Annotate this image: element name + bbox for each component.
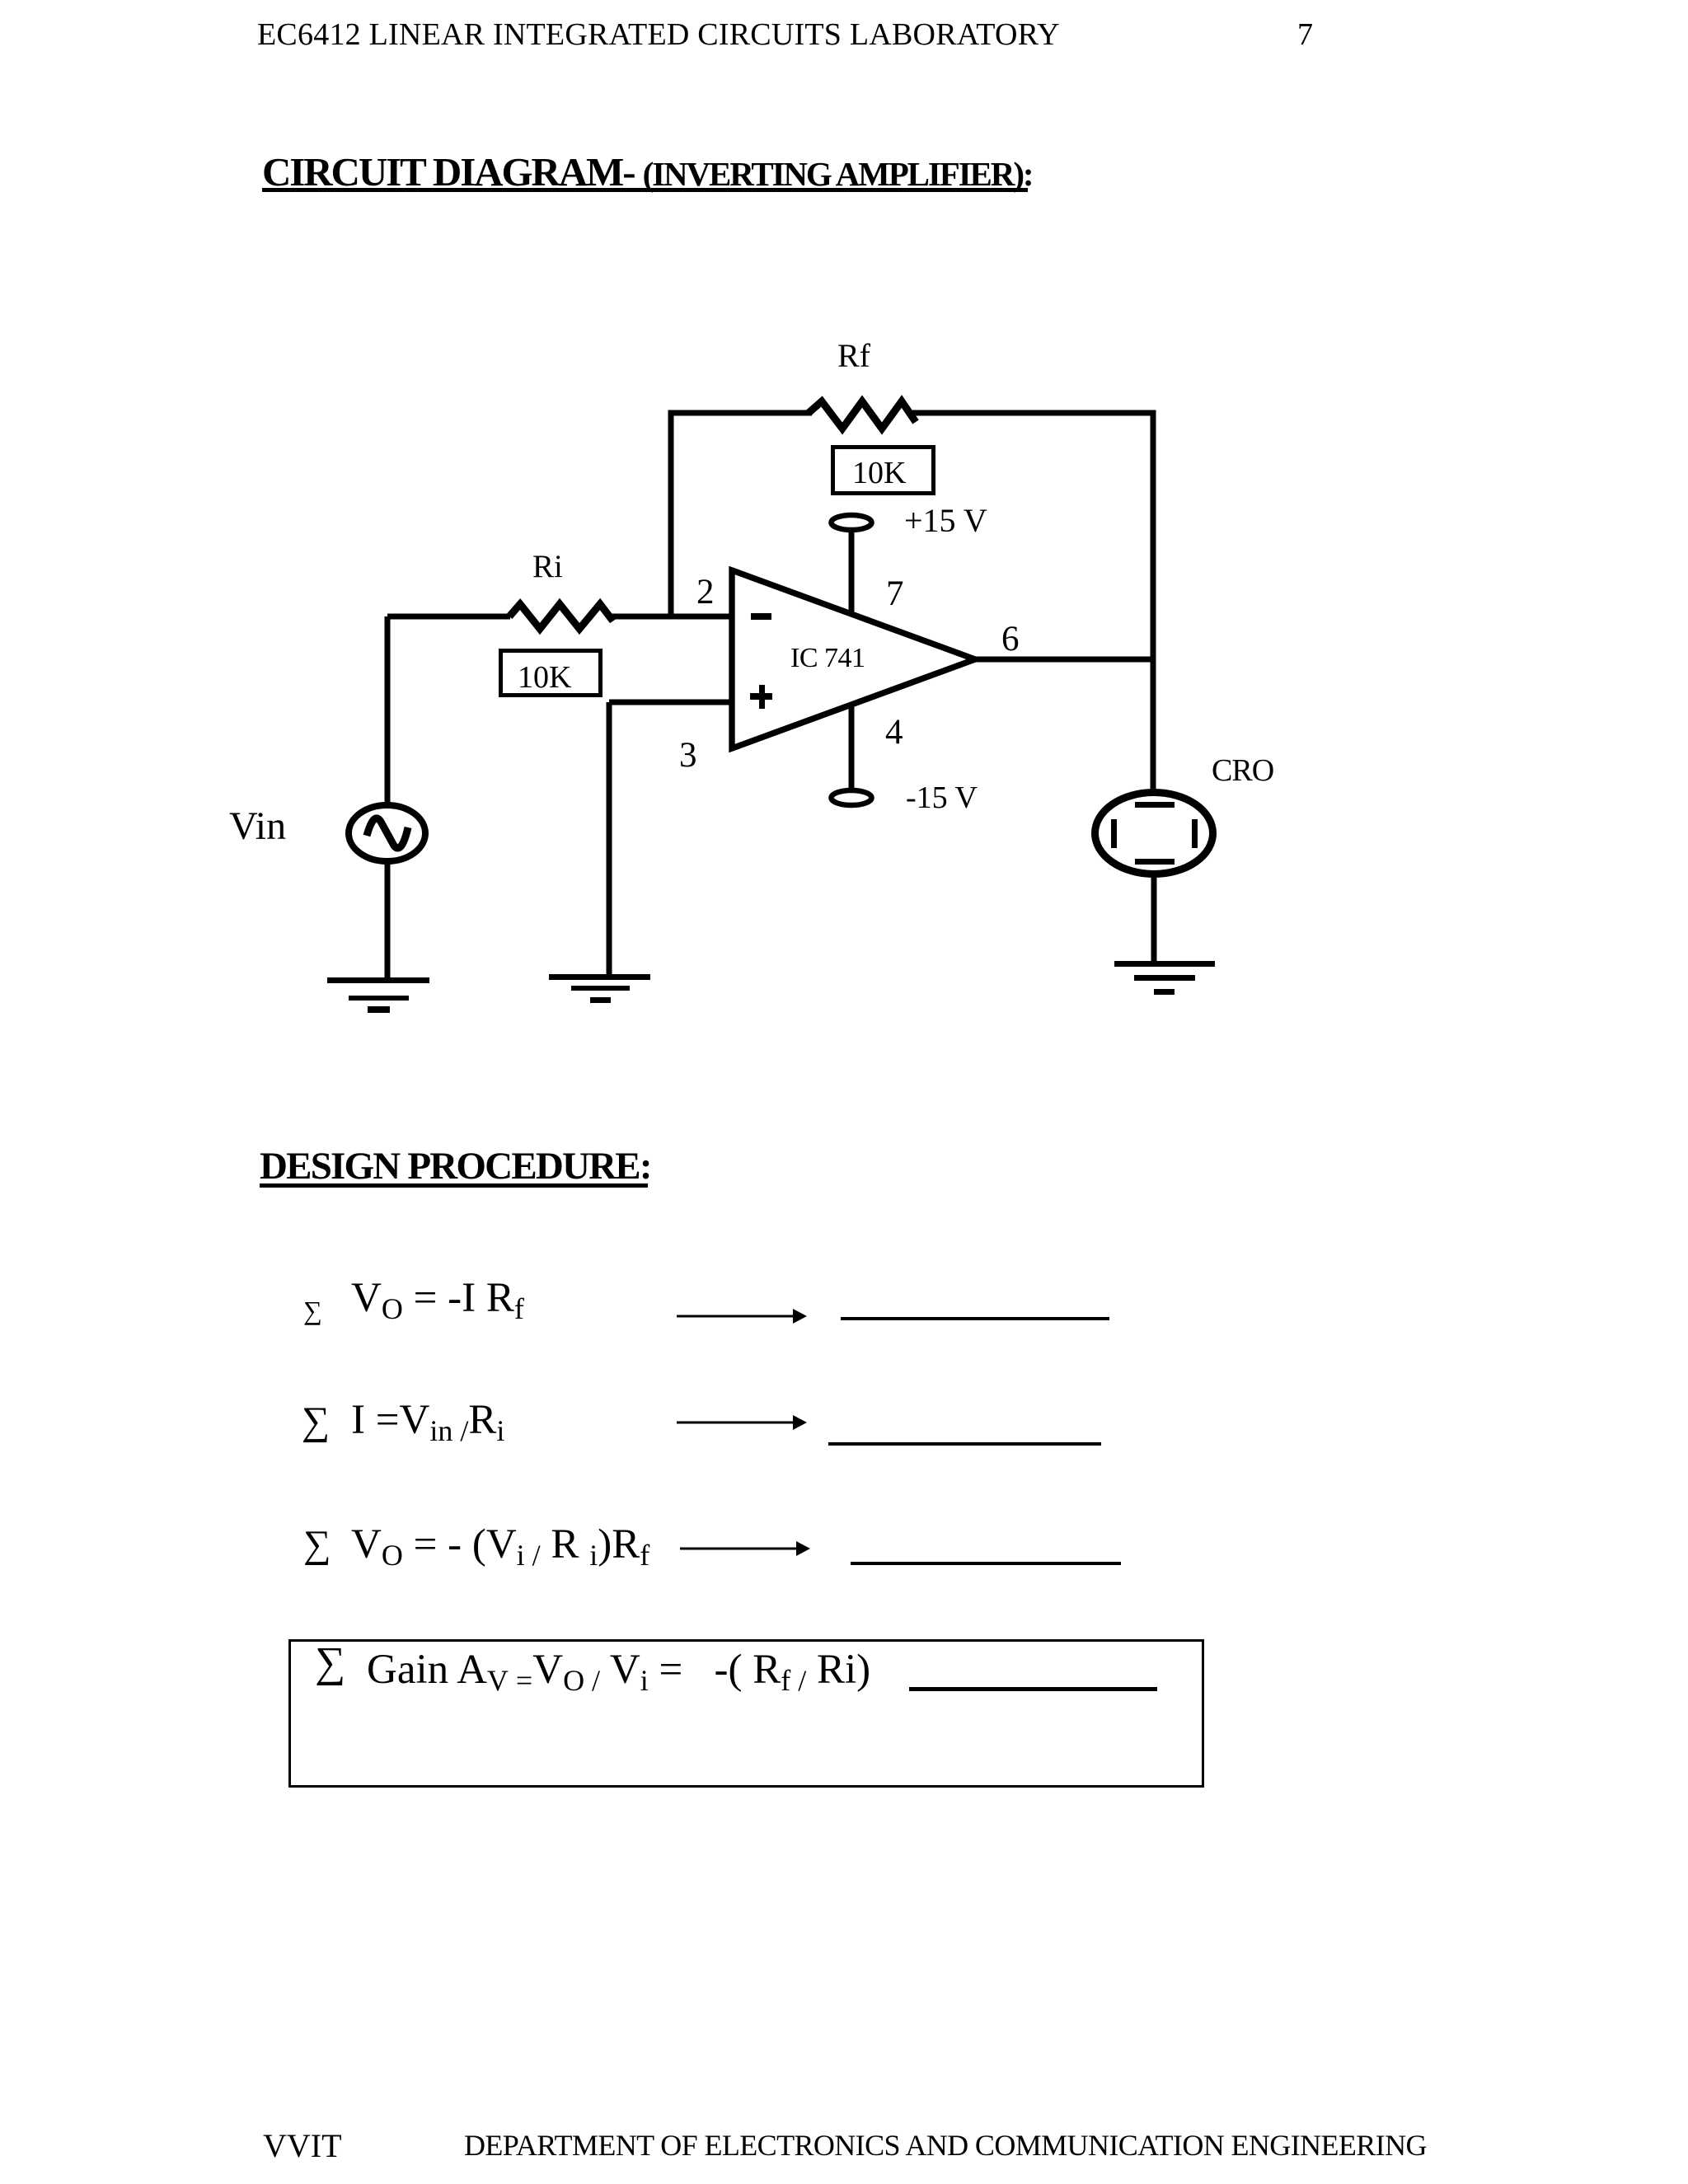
equation 3 blank line [851, 1562, 1121, 1565]
ground right [1114, 961, 1215, 995]
equation 2 arrow [677, 1413, 807, 1432]
resistor Rf [809, 401, 916, 429]
equation 1: Vo = -I Rf [351, 1274, 524, 1326]
wire pin 3 horizontal [609, 700, 733, 705]
label Rf [837, 336, 870, 375]
wire input to pin 2 right segment [611, 614, 733, 620]
-15V supply terminal [832, 790, 872, 805]
heading underline [260, 1183, 648, 1188]
heading DESIGN PROCEDURE [260, 1144, 651, 1188]
value label 10K (Rf) [852, 455, 906, 491]
equation 2 sigma [302, 1399, 330, 1444]
pin label 6 [1001, 619, 1020, 659]
oscilloscope CRO [1095, 793, 1213, 874]
footer department [464, 2128, 1427, 2163]
pin label 4 [885, 712, 903, 752]
equation 3 arrow [680, 1540, 810, 1558]
wire pin 7 to +15V [849, 532, 855, 616]
wire input to pin 2 left segment [387, 614, 510, 620]
footer VVIT [263, 2126, 342, 2165]
equation 3: Vo = -(Vi/Ri)Rf [351, 1521, 649, 1572]
header text [257, 16, 1060, 53]
wire output horizontal from pin 6 [973, 657, 1156, 663]
label Vin [229, 804, 286, 849]
label -15 V [906, 780, 978, 816]
source Vin AC symbol [349, 805, 425, 861]
label +15 V [904, 501, 987, 540]
wire feedback left vertical and top segment [671, 413, 812, 616]
pin label 3 [679, 735, 697, 776]
wire Vin vertical [385, 616, 391, 803]
section title [262, 148, 1032, 195]
gain blank line [909, 1687, 1157, 1691]
resistor Ri [509, 604, 613, 629]
label Ri [532, 548, 563, 585]
gain box [288, 1639, 1204, 1788]
value label 10K (Ri) [518, 659, 571, 696]
op-amp plus input marker [750, 685, 772, 709]
equation 1 sigma [303, 1296, 322, 1326]
op-amp minus input marker [751, 613, 771, 620]
equation 2 blank line [828, 1442, 1101, 1446]
value box 10K for Rf [833, 448, 934, 494]
wire pin 4 to -15V [849, 703, 855, 788]
gain sigma [315, 1638, 345, 1687]
wire CRO to ground [1151, 878, 1157, 964]
equation 3 sigma [303, 1522, 331, 1567]
op-amp U1 IC 741 triangle [732, 570, 975, 748]
wire Vin to ground [385, 863, 391, 980]
gain equation [367, 1646, 870, 1698]
wire pin 3 to ground vertical [607, 702, 612, 977]
pin label 7 [886, 574, 904, 614]
value box 10K for Ri [501, 651, 601, 696]
wire feedback top-right segment and output vertical [912, 413, 1153, 790]
equation 2: I = Vin/Ri [351, 1396, 504, 1448]
+15V supply terminal [832, 515, 872, 530]
equation 1 arrow [677, 1307, 807, 1325]
pin label 2 [696, 572, 715, 612]
title underline [262, 188, 1028, 192]
ground middle [549, 974, 650, 1003]
ground left [327, 977, 429, 1013]
equation 1 blank line [841, 1317, 1109, 1320]
label CRO [1212, 752, 1273, 789]
page number 7 [1297, 16, 1313, 53]
label IC 741 [790, 643, 865, 674]
